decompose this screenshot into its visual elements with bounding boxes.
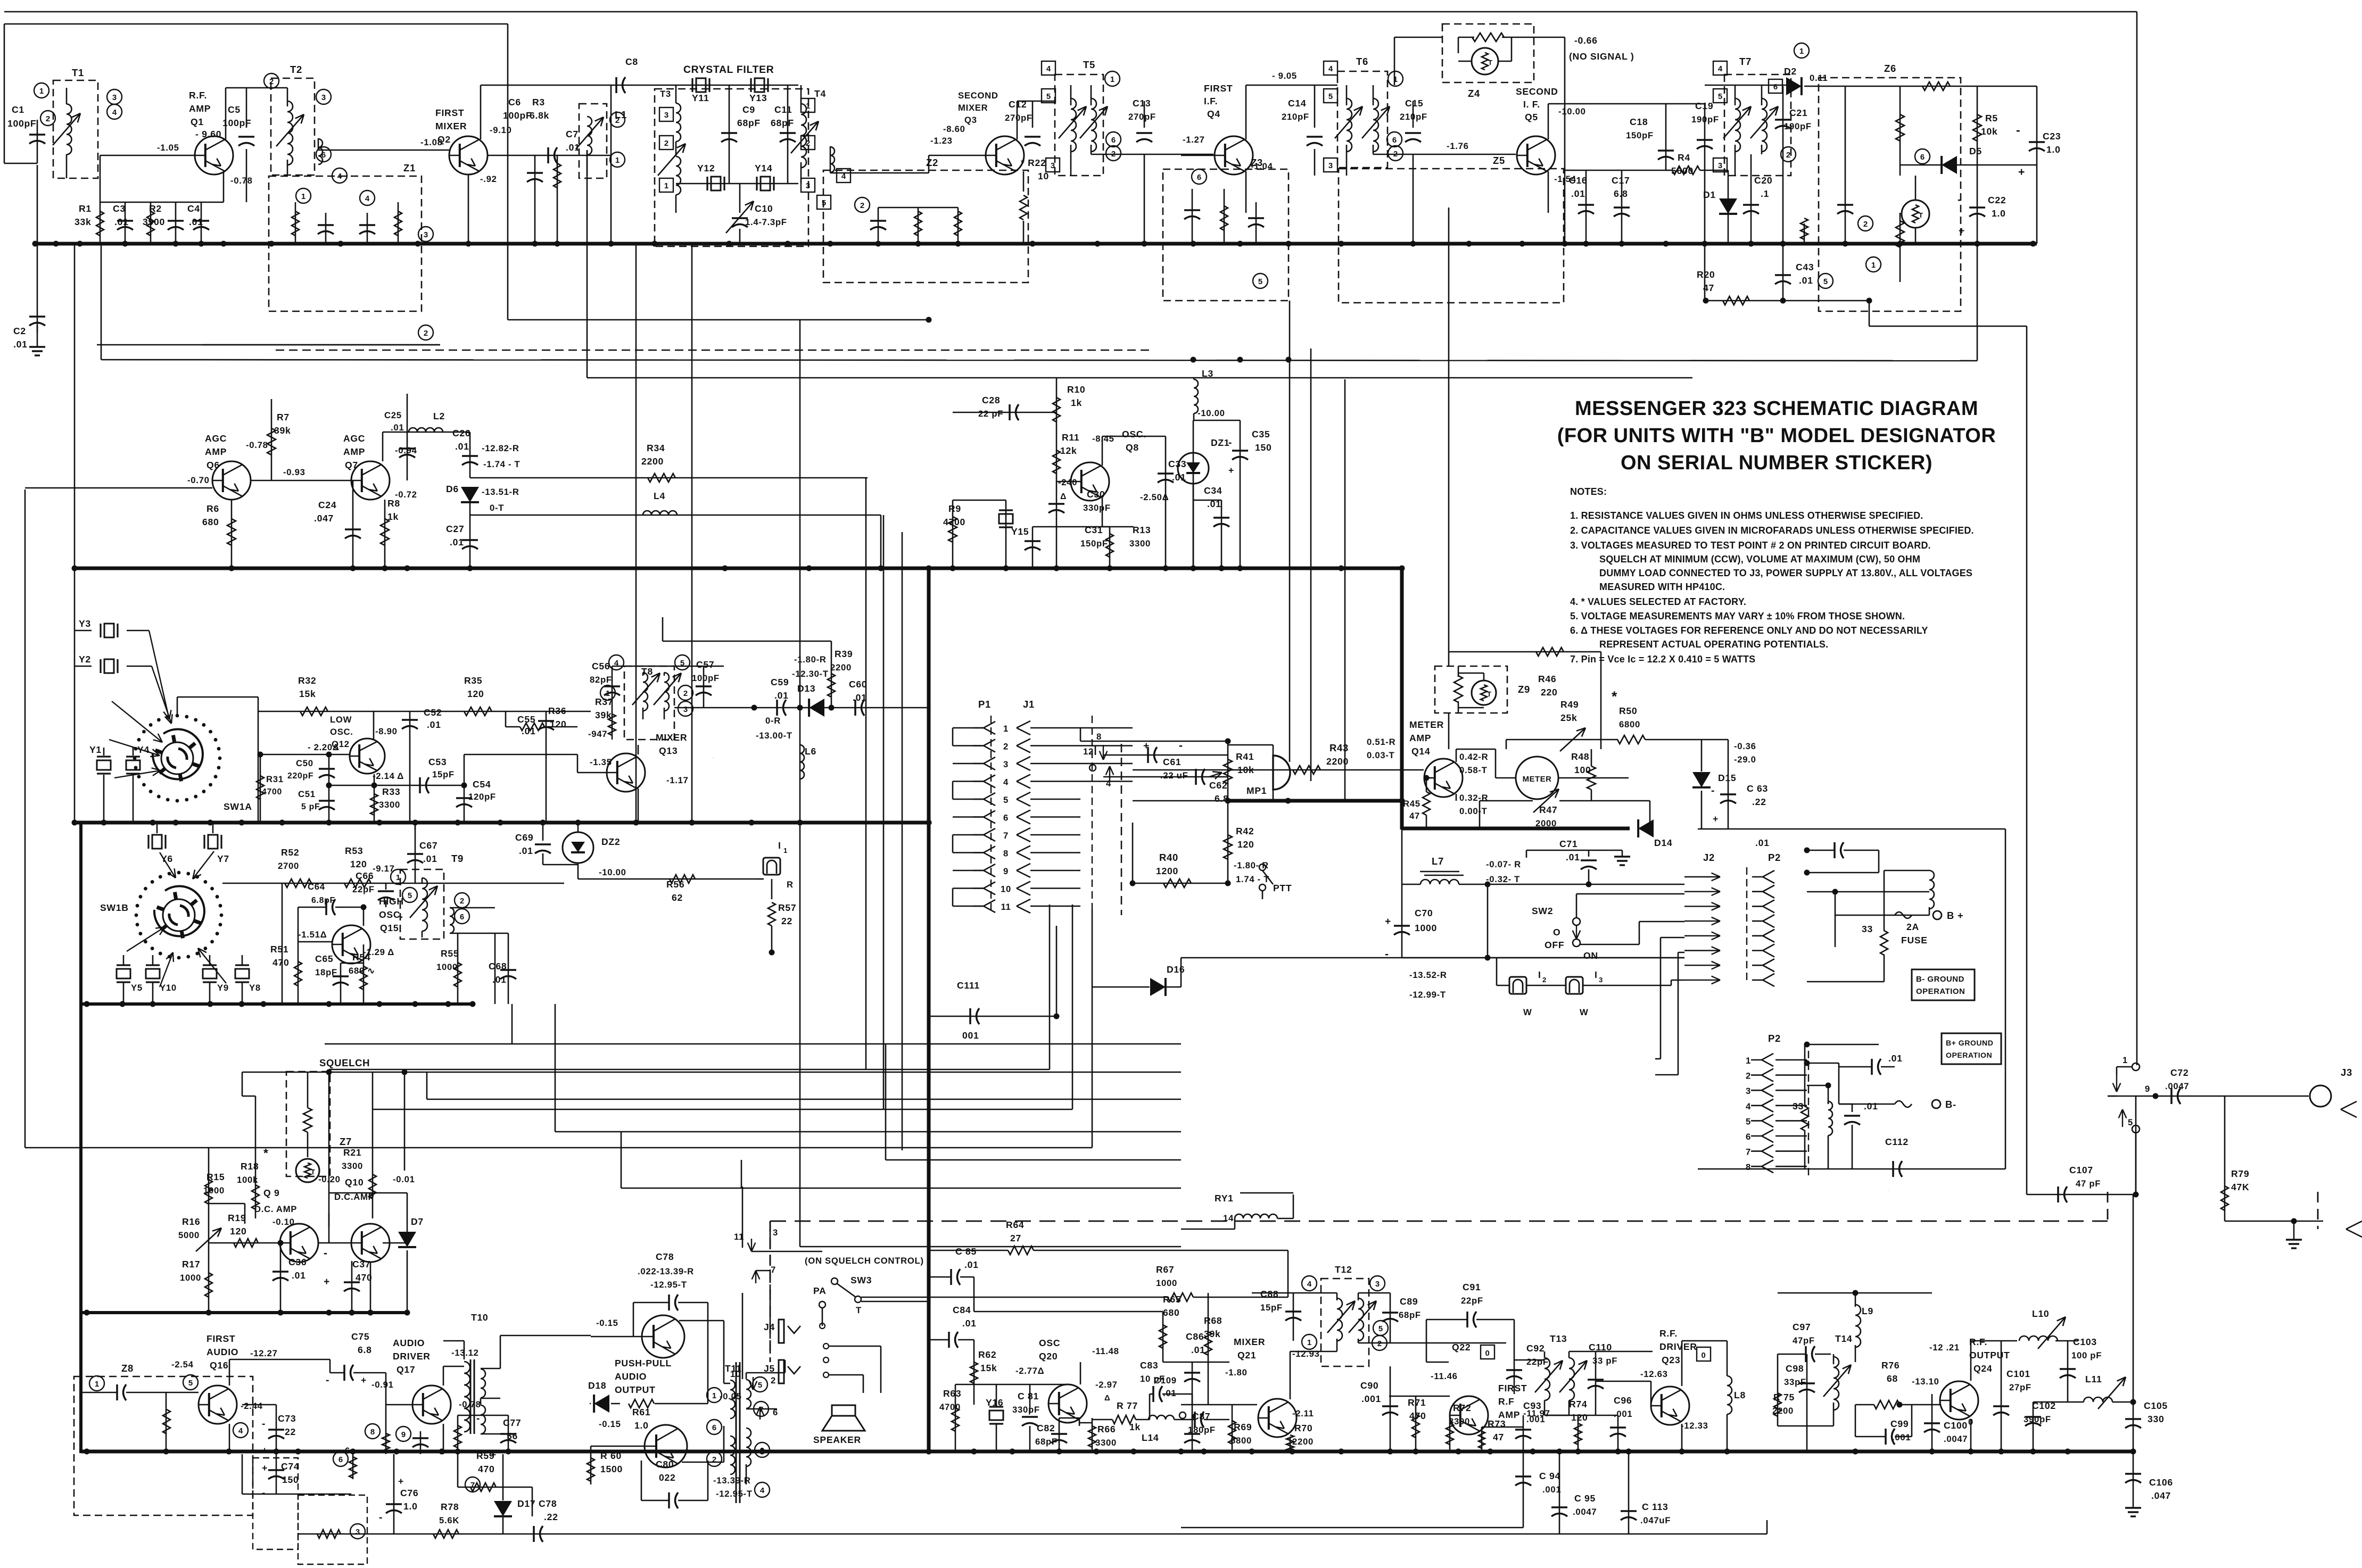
svg-text:OUTPUT: OUTPUT [615, 1384, 656, 1395]
svg-text:5: 5 [1328, 92, 1333, 101]
svg-text:C 63: C 63 [1747, 783, 1768, 794]
svg-text:L7: L7 [1432, 856, 1444, 867]
svg-text:-10.00: -10.00 [599, 867, 626, 877]
svg-text:R 60: R 60 [600, 1450, 622, 1461]
svg-text:R37: R37 [595, 696, 613, 707]
svg-text:.01: .01 [114, 217, 129, 227]
svg-text:-12.27: -12.27 [250, 1348, 278, 1358]
svg-text:(NO SIGNAL ): (NO SIGNAL ) [1569, 51, 1634, 62]
svg-text:O: O [1553, 927, 1560, 938]
svg-text:1k: 1k [1129, 1422, 1141, 1432]
svg-text:-12.95-T: -12.95-T [716, 1489, 753, 1499]
svg-text:+: + [398, 1476, 404, 1487]
svg-text:R48: R48 [1571, 751, 1589, 762]
svg-text:C55: C55 [517, 714, 535, 725]
svg-text:C52: C52 [424, 707, 442, 718]
svg-text:2: 2 [1863, 220, 1868, 229]
svg-text:C107: C107 [2069, 1165, 2093, 1175]
svg-text:C14: C14 [1288, 98, 1306, 109]
svg-text:-12.82-R: -12.82-R [482, 443, 519, 453]
svg-text:33pF: 33pF [1784, 1377, 1806, 1387]
svg-text:DRIVER: DRIVER [393, 1351, 431, 1362]
svg-text:R41: R41 [1236, 751, 1254, 762]
svg-text:1.0: 1.0 [2046, 144, 2061, 155]
svg-text:-29.0: -29.0 [1734, 754, 1756, 765]
svg-text:9: 9 [401, 1430, 406, 1439]
svg-text:Y4: Y4 [137, 744, 150, 755]
svg-text:R11: R11 [1062, 432, 1079, 443]
svg-text:-: - [2016, 123, 2020, 137]
svg-text:-13.12: -13.12 [451, 1348, 479, 1358]
svg-text:.01: .01 [391, 422, 404, 433]
svg-text:MESSENGER 323 SCHEMATIC DIAGRA: MESSENGER 323 SCHEMATIC DIAGRAM [1575, 397, 1978, 420]
svg-text:470: 470 [478, 1464, 494, 1474]
svg-text:68pF: 68pF [1399, 1310, 1421, 1320]
svg-text:D13: D13 [797, 683, 815, 694]
svg-text:0.58-T: 0.58-T [1459, 765, 1488, 775]
svg-text:PUSH-PULL: PUSH-PULL [615, 1358, 672, 1368]
svg-text:5.6K: 5.6K [439, 1515, 459, 1525]
svg-text:-: - [476, 1413, 480, 1424]
svg-text:T4: T4 [814, 88, 826, 99]
svg-text:C37: C37 [352, 1259, 370, 1270]
svg-text:R68: R68 [1204, 1315, 1222, 1326]
svg-text:R45: R45 [1403, 799, 1420, 809]
svg-text:R56: R56 [712, 758, 714, 759]
svg-text:J5: J5 [764, 1363, 775, 1374]
svg-text:0-R: 0-R [765, 716, 781, 726]
svg-text:.0047: .0047 [2165, 1081, 2189, 1091]
svg-text:C97: C97 [1793, 1322, 1811, 1332]
svg-text:.01: .01 [1888, 1053, 1903, 1064]
svg-text:5: 5 [1746, 1116, 1751, 1126]
svg-text:4: 4 [1003, 777, 1009, 787]
svg-text:2: 2 [1003, 742, 1009, 752]
svg-text:2: 2 [806, 139, 810, 148]
svg-text:R39: R39 [835, 649, 853, 659]
svg-text:4: 4 [112, 108, 117, 117]
svg-text:C53: C53 [428, 757, 447, 767]
svg-text:C5: C5 [228, 104, 241, 115]
svg-text:5: 5 [822, 198, 826, 208]
svg-text:D6: D6 [446, 484, 459, 494]
svg-text:.047: .047 [2151, 1490, 2171, 1501]
svg-text:P2: P2 [1768, 1033, 1781, 1044]
svg-text:1.4-7.3pF: 1.4-7.3pF [745, 217, 787, 227]
svg-text:6.8: 6.8 [1215, 793, 1229, 804]
svg-text:C25: C25 [384, 410, 402, 420]
svg-text:C90: C90 [1360, 1380, 1378, 1391]
svg-text:1: 1 [95, 1380, 99, 1389]
svg-text:R65: R65 [1163, 1294, 1181, 1305]
svg-text:MP1: MP1 [1246, 785, 1267, 796]
svg-text:47pF: 47pF [1793, 1335, 1815, 1346]
svg-text:C99: C99 [1890, 1418, 1909, 1429]
svg-text:1.0: 1.0 [1992, 208, 2006, 219]
svg-text:270pF: 270pF [1005, 113, 1033, 123]
svg-text:C4: C4 [187, 203, 200, 214]
svg-text:6: 6 [1746, 1132, 1751, 1142]
svg-text:I: I [1595, 969, 1598, 980]
svg-text:R20: R20 [1697, 269, 1715, 280]
svg-text:T3: T3 [660, 89, 671, 99]
svg-text:T7: T7 [1739, 56, 1752, 67]
svg-text:L4: L4 [654, 491, 665, 501]
svg-text:+: + [262, 1463, 268, 1473]
svg-text:2: 2 [460, 897, 464, 906]
svg-text:1200: 1200 [1156, 866, 1178, 876]
svg-text:FIRST: FIRST [435, 107, 464, 118]
svg-text:1: 1 [783, 847, 788, 854]
svg-text:6800: 6800 [1619, 719, 1640, 729]
svg-text:Z7: Z7 [340, 1136, 352, 1147]
svg-text:C60: C60 [849, 679, 867, 690]
svg-text:C23: C23 [2043, 131, 2061, 142]
svg-text:C101: C101 [2006, 1368, 2030, 1379]
svg-text:AMP: AMP [205, 446, 227, 457]
svg-text:R72: R72 [1453, 1403, 1471, 1413]
svg-text:AUDIO: AUDIO [207, 1347, 238, 1357]
svg-text:C 81: C 81 [1018, 1391, 1039, 1401]
svg-text:100 pF: 100 pF [2071, 1350, 2102, 1360]
svg-text:C24: C24 [318, 500, 336, 510]
svg-text:-13.52-R: -13.52-R [1409, 970, 1447, 980]
svg-text:R.F.: R.F. [1659, 1328, 1678, 1339]
svg-text:-12.95-T: -12.95-T [650, 1280, 687, 1290]
svg-text:3: 3 [1003, 759, 1009, 769]
svg-text:C22: C22 [1988, 195, 2006, 205]
svg-text:.22: .22 [544, 1512, 558, 1522]
svg-text:4: 4 [337, 172, 342, 181]
svg-text:-12.63: -12.63 [1640, 1369, 1668, 1379]
svg-text:330pF: 330pF [1012, 1405, 1040, 1415]
svg-text:RY1: RY1 [1215, 1193, 1234, 1204]
svg-text:C76: C76 [400, 1488, 418, 1498]
svg-text:15k: 15k [299, 688, 316, 699]
svg-text:5: 5 [1378, 1324, 1383, 1333]
svg-text:D17: D17 [517, 1498, 535, 1509]
svg-text:-1.51Δ: -1.51Δ [298, 930, 327, 940]
svg-text:C100: C100 [1944, 1420, 1968, 1431]
svg-text:R7: R7 [277, 412, 290, 422]
svg-text:R55: R55 [441, 948, 459, 959]
svg-text:4: 4 [1307, 1280, 1312, 1289]
svg-text:Z5: Z5 [1493, 155, 1505, 166]
svg-text:HIGH: HIGH [379, 896, 404, 907]
svg-text:1000: 1000 [1415, 923, 1437, 933]
svg-text:8: 8 [1003, 849, 1009, 859]
svg-text:C111: C111 [957, 980, 980, 991]
svg-text:3: 3 [356, 1528, 360, 1537]
svg-text:.01: .01 [1864, 1101, 1878, 1111]
svg-text:3300: 3300 [1095, 1438, 1117, 1448]
svg-text:Q5: Q5 [1525, 112, 1538, 122]
svg-text:Y1: Y1 [89, 744, 102, 755]
svg-text:10k: 10k [1237, 765, 1254, 775]
svg-text:47: 47 [1493, 1432, 1504, 1442]
svg-text:R64: R64 [1006, 1219, 1024, 1230]
svg-text:C66: C66 [356, 870, 374, 881]
svg-text:-0.32- T: -0.32- T [1486, 874, 1520, 884]
svg-text:C28: C28 [982, 395, 1000, 405]
svg-text:J3: J3 [2341, 1067, 2352, 1078]
svg-text:C34: C34 [1204, 485, 1222, 496]
svg-text:1k: 1k [1071, 397, 1082, 408]
svg-text:-: - [262, 1487, 266, 1499]
svg-text:5. VOLTAGE MEASUREMENTS MAY: 5. VOLTAGE MEASUREMENTS MAY VARY ± 10% F… [1570, 611, 1905, 621]
svg-text:LOW: LOW [330, 715, 352, 725]
svg-text:Y12: Y12 [697, 163, 715, 173]
svg-text:22pF: 22pF [352, 884, 375, 894]
svg-text:C15: C15 [1405, 98, 1423, 109]
svg-text:+: + [2018, 166, 2025, 178]
svg-text:C6: C6 [508, 97, 521, 107]
svg-text:3. VOLTAGES MEASURED TO TEST: 3. VOLTAGES MEASURED TO TEST POINT # 2 O… [1570, 540, 1931, 551]
svg-text:-0.66: -0.66 [1574, 35, 1598, 46]
svg-text:Q1: Q1 [191, 117, 204, 127]
svg-text:4: 4 [238, 1426, 243, 1436]
svg-text:.01: .01 [519, 845, 533, 856]
svg-text:R67: R67 [1156, 1264, 1174, 1275]
svg-text:C82: C82 [1037, 1423, 1055, 1433]
svg-text:C3: C3 [113, 203, 126, 214]
svg-text:6.8: 6.8 [1614, 188, 1628, 199]
svg-text:82pF: 82pF [590, 675, 612, 685]
svg-text:5: 5 [188, 1379, 193, 1388]
svg-text:AMP: AMP [1409, 733, 1431, 743]
svg-text:R6: R6 [207, 503, 219, 514]
svg-text:R17: R17 [182, 1259, 200, 1270]
svg-text:6.8: 6.8 [358, 1345, 372, 1355]
svg-text:1: 1 [1003, 724, 1009, 734]
svg-text:SW1A: SW1A [224, 801, 252, 812]
svg-text:022: 022 [659, 1472, 675, 1483]
svg-text:*: * [1612, 688, 1617, 704]
svg-text:-: - [1228, 437, 1232, 449]
svg-text:C59: C59 [771, 677, 789, 687]
svg-text:R62: R62 [978, 1349, 996, 1360]
svg-text:B+ GROUND: B+ GROUND [1946, 1039, 1993, 1047]
svg-text:1000: 1000 [436, 962, 458, 972]
svg-text:120: 120 [1571, 1412, 1588, 1423]
svg-text:C98: C98 [1786, 1363, 1804, 1374]
svg-text:-1.80-R: -1.80-R [794, 654, 827, 665]
svg-text:MIXER: MIXER [435, 121, 467, 131]
svg-text:15pF: 15pF [432, 769, 455, 779]
svg-text:6: 6 [712, 1423, 716, 1432]
svg-text:R52: R52 [281, 847, 299, 858]
svg-text:-0.15: -0.15 [596, 1318, 618, 1328]
svg-text:2: 2 [1746, 1071, 1751, 1081]
svg-text:680: 680 [202, 517, 219, 527]
svg-text:C56: C56 [592, 661, 610, 671]
svg-text:C57: C57 [696, 659, 714, 670]
svg-text:R79: R79 [2231, 1168, 2249, 1179]
svg-text:6: 6 [1197, 173, 1201, 182]
svg-text:5: 5 [1258, 277, 1262, 286]
svg-text:D5: D5 [1969, 146, 1982, 156]
svg-text:R13: R13 [1133, 525, 1151, 535]
svg-text:9: 9 [2145, 1084, 2150, 1094]
svg-text:METER: METER [1523, 775, 1552, 784]
svg-text:6: 6 [1773, 82, 1778, 92]
svg-text:R19: R19 [228, 1213, 246, 1223]
svg-text:62: 62 [672, 892, 683, 903]
svg-text:DZ2: DZ2 [601, 836, 620, 847]
svg-text:AGC: AGC [205, 433, 227, 444]
svg-text:-0.78: -0.78 [246, 440, 268, 450]
svg-text:-0.01: -0.01 [393, 1174, 415, 1184]
svg-text:C11: C11 [774, 104, 792, 115]
svg-text:1: 1 [1307, 1338, 1311, 1347]
svg-text:D18: D18 [588, 1380, 606, 1391]
svg-text:Q21: Q21 [1237, 1350, 1256, 1360]
svg-text:C 113: C 113 [1642, 1501, 1668, 1512]
svg-text:R53: R53 [345, 845, 363, 856]
svg-text:OPERATION: OPERATION [1916, 987, 1965, 996]
svg-text:-13.00-T: -13.00-T [756, 731, 792, 741]
svg-text:C54: C54 [473, 779, 491, 790]
svg-text:D14: D14 [1654, 837, 1672, 848]
svg-text:220pF: 220pF [287, 771, 313, 781]
svg-text:-0.36: -0.36 [1734, 741, 1756, 751]
svg-text:Q24: Q24 [1973, 1363, 1992, 1374]
svg-text:1: 1 [606, 689, 610, 698]
svg-text:R34: R34 [647, 443, 665, 453]
svg-text:(FOR UNITS WITH "B" MODEL DESI: (FOR UNITS WITH "B" MODEL DESIGNATOR [1557, 425, 1996, 447]
svg-text:.01: .01 [1163, 1388, 1176, 1398]
svg-text:FUSE: FUSE [1901, 935, 1928, 945]
svg-text:.01: .01 [962, 1318, 977, 1329]
svg-text:T: T [1488, 59, 1492, 67]
svg-text:-947: -947 [588, 729, 607, 739]
svg-text:.001: .001 [1526, 1414, 1545, 1424]
svg-text:1.74 - T: 1.74 - T [1236, 874, 1269, 884]
svg-text:R10: R10 [1067, 384, 1085, 395]
svg-text:7: 7 [1003, 831, 1009, 841]
svg-text:22 pF: 22 pF [978, 409, 1003, 419]
svg-text:Q15: Q15 [380, 923, 399, 933]
svg-text:0.42-R: 0.42-R [1459, 752, 1488, 762]
svg-text:.01: .01 [450, 537, 464, 547]
svg-text:22: 22 [781, 916, 792, 926]
svg-text:.0047: .0047 [1944, 1434, 1968, 1444]
svg-text:1. RESISTANCE VALUES GIVEN I: 1. RESISTANCE VALUES GIVEN IN OHMS UNLES… [1570, 510, 1923, 521]
svg-text:FIRST: FIRST [207, 1333, 235, 1344]
svg-text:C21: C21 [1789, 107, 1807, 118]
svg-text:*: * [263, 1146, 269, 1160]
svg-text:3: 3 [760, 1446, 764, 1455]
svg-text:C78: C78 [539, 1498, 557, 1509]
svg-text:T9: T9 [451, 853, 464, 864]
svg-text:.01: .01 [774, 690, 789, 701]
svg-text:-2.77Δ: -2.77Δ [1015, 1366, 1044, 1376]
svg-text:R46: R46 [1538, 674, 1556, 684]
svg-text:-1.04: -1.04 [1251, 161, 1273, 171]
svg-text:T2: T2 [290, 64, 302, 75]
svg-text:-9.10: -9.10 [490, 125, 512, 135]
svg-text:R4: R4 [1678, 152, 1690, 163]
svg-text:2: 2 [1542, 976, 1547, 984]
svg-text:6: 6 [1111, 136, 1116, 145]
svg-text:T10: T10 [471, 1312, 488, 1323]
svg-text:150: 150 [1255, 442, 1271, 453]
svg-text:33: 33 [1793, 1101, 1804, 1111]
svg-text:MIXER: MIXER [656, 732, 687, 743]
svg-text:Q3: Q3 [964, 115, 977, 125]
svg-text:-0.93: -0.93 [283, 467, 305, 477]
svg-text:5 pF: 5 pF [301, 802, 320, 811]
svg-text:METER: METER [1409, 719, 1444, 730]
svg-text:C105: C105 [2144, 1400, 2168, 1411]
svg-text:330pF: 330pF [1083, 503, 1111, 513]
svg-text:L6: L6 [805, 746, 816, 757]
svg-text:C103: C103 [2073, 1337, 2097, 1347]
svg-text:Q14: Q14 [1411, 746, 1430, 757]
svg-text:* R22: * R22 [1021, 157, 1046, 168]
svg-text:L2: L2 [433, 411, 445, 421]
svg-text:C84: C84 [953, 1305, 971, 1315]
svg-text:7: 7 [771, 1265, 776, 1275]
svg-text:.047uF: .047uF [1640, 1515, 1671, 1525]
svg-text:Q22: Q22 [1452, 1342, 1471, 1353]
svg-text:Q6: Q6 [207, 460, 220, 470]
svg-text:C112: C112 [1885, 1136, 1909, 1147]
svg-text:-240: -240 [1058, 477, 1077, 487]
svg-text:C65: C65 [315, 953, 333, 964]
svg-text:I: I [1538, 969, 1541, 980]
svg-text:R38: R38 [606, 783, 608, 784]
svg-text:C1: C1 [12, 104, 24, 115]
svg-text:-12.93: -12.93 [1292, 1349, 1320, 1359]
svg-text:R33: R33 [382, 786, 400, 797]
svg-text:1: 1 [1110, 75, 1114, 84]
svg-text:T: T [311, 1168, 315, 1176]
svg-text:120: 120 [230, 1226, 246, 1237]
svg-text:-: - [324, 1247, 328, 1259]
svg-text:C35: C35 [1252, 429, 1270, 439]
svg-text:MEASURED WITH HP410C.: MEASURED WITH HP410C. [1599, 582, 1725, 592]
svg-text:SQUELCH AT MINIMUM (CCW), VOLU: SQUELCH AT MINIMUM (CCW), VOLUME AT MAXI… [1599, 554, 1920, 565]
svg-text:R31: R31 [266, 774, 284, 784]
svg-text:1500: 1500 [600, 1464, 623, 1474]
svg-text:C61: C61 [1163, 757, 1181, 767]
svg-text:3300: 3300 [379, 800, 400, 810]
svg-text:-8.45: -8.45 [1092, 434, 1114, 444]
svg-text:+: + [1713, 814, 1719, 824]
svg-text:W: W [1523, 1007, 1532, 1017]
svg-text:FIRST: FIRST [1498, 1383, 1527, 1393]
svg-text:0: 0 [1485, 1349, 1490, 1358]
svg-text:8: 8 [1096, 732, 1102, 742]
svg-text:15pF: 15pF [1260, 1302, 1283, 1313]
svg-text:C67: C67 [419, 840, 437, 851]
svg-text:2: 2 [46, 114, 50, 123]
svg-text:C91: C91 [1463, 1282, 1481, 1292]
svg-text:-.92: -.92 [480, 174, 497, 184]
svg-text:270pF: 270pF [1128, 112, 1156, 122]
svg-text:C18: C18 [1630, 117, 1648, 127]
svg-text:150pF: 150pF [1080, 538, 1108, 549]
svg-text:C83: C83 [1140, 1360, 1158, 1371]
svg-text:-0.70: -0.70 [187, 475, 210, 485]
svg-text:-13.10: -13.10 [1912, 1376, 1939, 1387]
svg-text:27pF: 27pF [2009, 1382, 2031, 1392]
svg-text:(ON SQUELCH CONTROL): (ON SQUELCH CONTROL) [805, 1256, 924, 1266]
svg-text:C64: C64 [308, 882, 325, 892]
svg-text:2200: 2200 [830, 662, 852, 673]
svg-text:100pF: 100pF [692, 673, 720, 683]
